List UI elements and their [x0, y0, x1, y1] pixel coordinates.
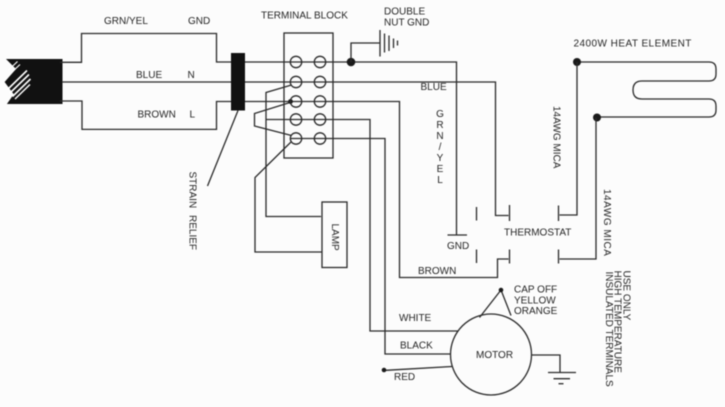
svg-text:ORANGE: ORANGE: [514, 306, 558, 317]
capacitor leads cap off: [480, 288, 512, 318]
wire row2 BLUE through block to thermostat: [245, 82, 509, 216]
heat element serpentine: [577, 62, 716, 117]
lamp: [322, 202, 347, 268]
svg-text:BLUE: BLUE: [421, 82, 447, 93]
svg-text:RELIEF: RELIEF: [187, 215, 198, 250]
svg-text:INSULATED TERMINALS: INSULATED TERMINALS: [603, 272, 614, 388]
wire row3 BROWN through block to thermostat: [245, 102, 509, 278]
svg-text:E: E: [437, 164, 444, 175]
wire RED to motor: [386, 367, 452, 371]
label GRN/YEL vertical (stacked): [436, 109, 444, 186]
svg-text:Y: Y: [437, 153, 444, 164]
heat element terminal dot 2: [593, 114, 601, 122]
svg-text:L: L: [190, 110, 196, 121]
svg-text:LAMP: LAMP: [329, 224, 340, 252]
svg-text:DOUBLE: DOUBLE: [384, 7, 425, 18]
ground GND thermostat area: [448, 234, 468, 236]
label DOUBLE NUT GND: [384, 7, 429, 29]
wire heat element 1 to thermostat: [560, 62, 578, 215]
junction dot row1: [347, 58, 356, 67]
svg-text:MOTOR: MOTOR: [476, 350, 513, 361]
svg-text:2400W HEAT ELEMENT: 2400W HEAT ELEMENT: [574, 39, 692, 50]
wire BROWN from plug under bottom box to strain relief: [60, 101, 245, 129]
svg-text:14AWG MICA: 14AWG MICA: [551, 106, 562, 169]
svg-text:14AWG MICA: 14AWG MICA: [601, 189, 612, 256]
svg-text:BLACK: BLACK: [400, 341, 433, 352]
svg-text:BLUE: BLUE: [136, 70, 162, 81]
motor M1: [451, 314, 532, 395]
wire row4 WHITE to motor: [266, 120, 459, 332]
svg-text:GND: GND: [447, 241, 469, 252]
wire row5 BLACK to motor: [290, 139, 451, 355]
terminal dot RED: [382, 368, 387, 373]
svg-text:GRN/YEL: GRN/YEL: [104, 16, 148, 27]
wire BLUE from plug straight to terminal block: [62, 81, 245, 83]
svg-text:THERMOSTAT: THERMOSTAT: [504, 228, 571, 239]
svg-text:N: N: [188, 70, 195, 81]
svg-text:RED: RED: [394, 372, 415, 383]
ground (motor): [548, 373, 576, 384]
svg-text:TERMINAL BLOCK: TERMINAL BLOCK: [261, 11, 348, 22]
label CAP OFF YELLOW ORANGE: [514, 285, 558, 318]
junction dot row3: [288, 99, 293, 104]
terminal block TB1: [284, 33, 333, 158]
svg-text:BROWN: BROWN: [418, 266, 456, 277]
svg-text:STRAIN: STRAIN: [187, 172, 198, 209]
svg-text:G: G: [436, 109, 444, 120]
double nut ground: [351, 30, 398, 62]
svg-text:GND: GND: [188, 16, 210, 27]
svg-text:NUT GND: NUT GND: [384, 18, 429, 29]
wire jumper row2 to lamp: [266, 85, 321, 217]
svg-text:WHITE: WHITE: [399, 313, 432, 324]
plug P1: [5, 59, 63, 104]
svg-text:R: R: [436, 120, 443, 131]
wire row5 to lamp: [255, 142, 322, 253]
svg-text:/: /: [439, 142, 442, 153]
svg-text:N: N: [436, 131, 443, 142]
wire jumper row3 to row5: [255, 103, 292, 136]
wire motor to ground: [532, 355, 561, 372]
wire row1 GRN/YEL through block to ground: [245, 62, 457, 235]
svg-text:CAP OFF: CAP OFF: [514, 285, 557, 296]
svg-text:YELLOW: YELLOW: [514, 296, 556, 307]
thermostat TS1: [477, 205, 559, 264]
leader strain relief: [208, 111, 239, 187]
strain relief: [231, 53, 245, 111]
svg-text:L: L: [437, 175, 443, 186]
wire GRN/YEL from plug over top box to strain relief: [60, 34, 245, 63]
heat element terminal dot 1: [573, 58, 581, 66]
wire heat element 2 to thermostat: [560, 118, 597, 260]
svg-text:BROWN: BROWN: [138, 110, 176, 121]
